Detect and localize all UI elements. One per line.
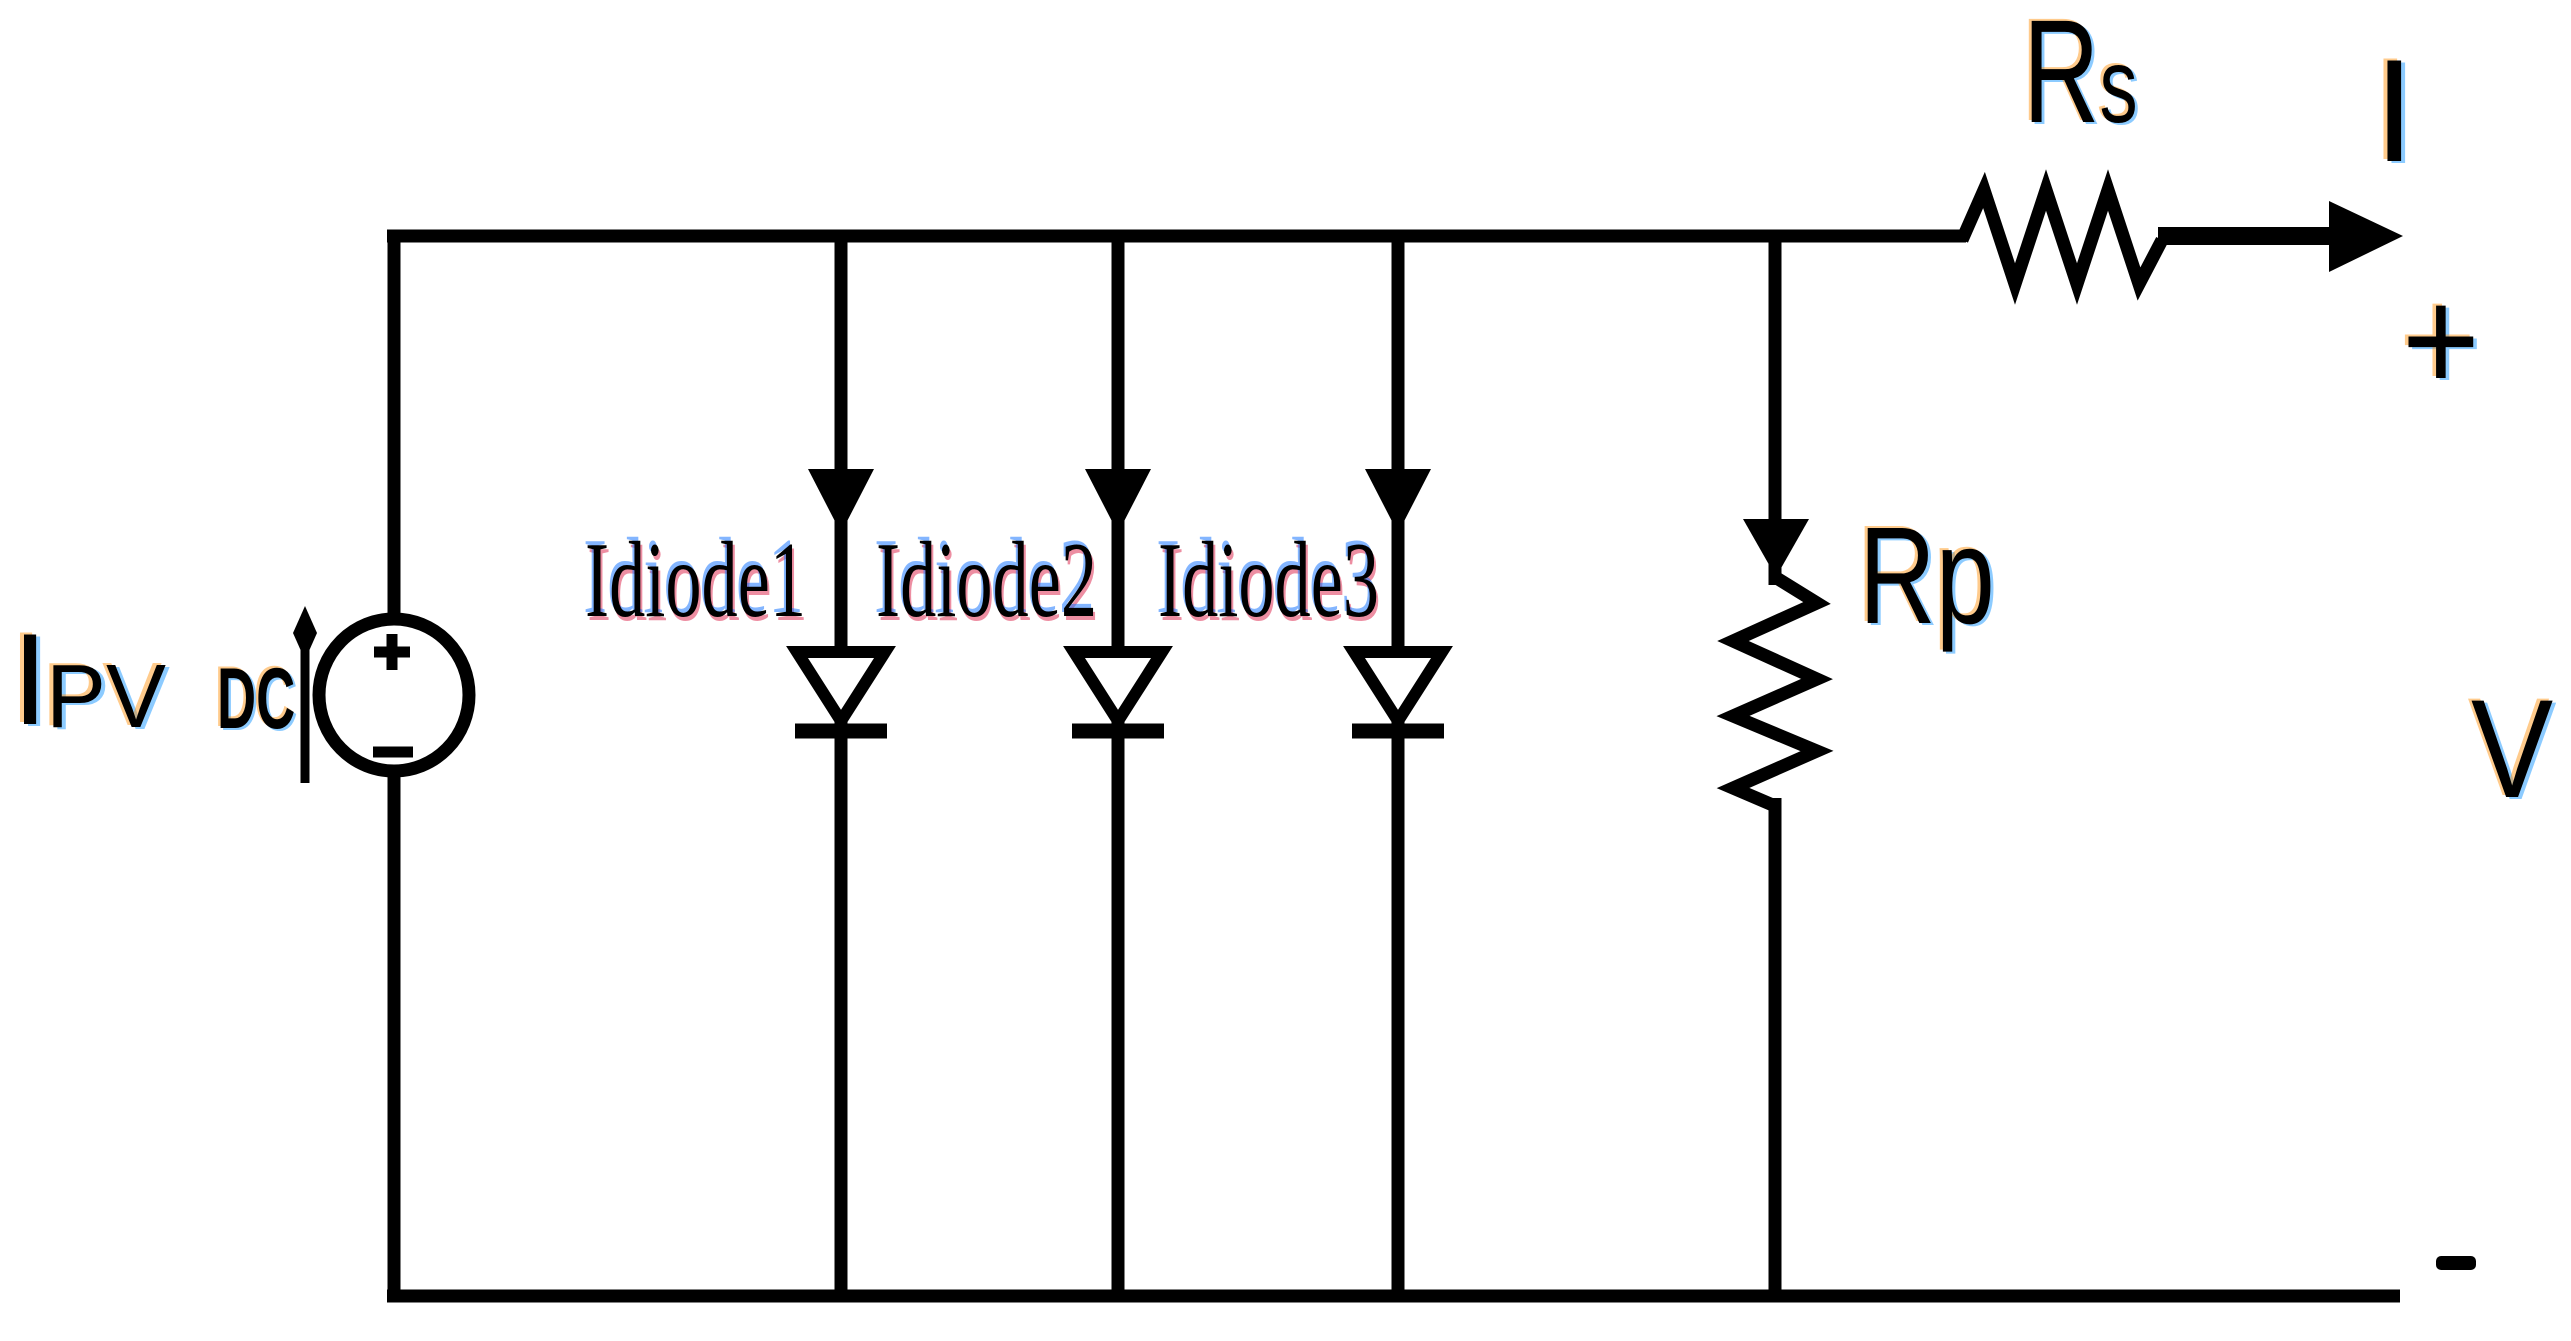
- label + (output positive): [2402, 267, 2480, 415]
- current arrowhead diode-2: [1085, 469, 1151, 533]
- wire left vertical upper: [388, 230, 401, 620]
- wire diode-2 branch lower: [1112, 712, 1125, 1296]
- diode D1: [795, 652, 887, 731]
- wire bottom bus: [387, 1290, 2400, 1303]
- wire diode-3 branch lower: [1392, 712, 1405, 1296]
- resistor Rs zigzag: [1962, 190, 2162, 284]
- label - (output negative): [2436, 1256, 2476, 1270]
- diode D3: [1352, 652, 1444, 731]
- wire Rp branch upper: [1769, 230, 1782, 585]
- label I (output current): [2374, 38, 2415, 184]
- current source IPV circle: [319, 619, 469, 771]
- label Rp: [1859, 507, 1995, 645]
- label Idiode3: [1158, 527, 1379, 635]
- label Rs: [2023, 0, 2138, 146]
- wire diode-3 branch upper: [1392, 230, 1405, 658]
- wire diode-2 branch upper: [1112, 230, 1125, 658]
- label Idiode1: [585, 527, 806, 635]
- wire Rp branch lower: [1769, 798, 1782, 1296]
- output arrow I: [2158, 201, 2403, 272]
- wire left vertical lower: [388, 770, 401, 1296]
- wire top bus: [387, 230, 1966, 243]
- label Idiode2: [876, 527, 1097, 635]
- wire diode-1 branch upper: [835, 230, 848, 658]
- diode D2: [1072, 652, 1164, 731]
- current arrowhead Rp: [1743, 519, 1809, 577]
- label V (output voltage): [2471, 679, 2553, 819]
- current arrowhead diode-3: [1365, 469, 1431, 533]
- current arrowhead diode-1: [808, 469, 874, 533]
- label IPV subscript PV: [46, 652, 166, 742]
- wire diode-1 branch lower: [835, 712, 848, 1296]
- label DC: [217, 656, 295, 742]
- IPV direction arrow: [293, 606, 317, 783]
- label IPV: [12, 614, 48, 744]
- resistor Rp zigzag: [1733, 577, 1817, 806]
